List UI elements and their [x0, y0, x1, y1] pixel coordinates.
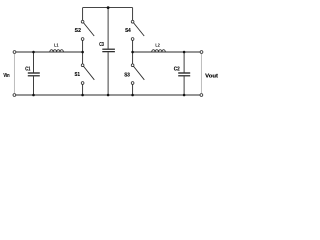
- svg-text:S2: S2: [75, 28, 81, 34]
- svg-text:C1: C1: [25, 66, 30, 72]
- svg-text:Vout: Vout: [205, 74, 218, 80]
- svg-text:Vin: Vin: [3, 73, 9, 79]
- svg-text:S3: S3: [124, 72, 130, 78]
- svg-text:C2: C2: [174, 66, 180, 72]
- svg-text:L2: L2: [155, 42, 160, 48]
- svg-text:C3: C3: [99, 42, 104, 48]
- svg-text:S1: S1: [75, 72, 81, 78]
- svg-text:S4: S4: [125, 28, 131, 34]
- svg-text:L1: L1: [54, 42, 59, 48]
